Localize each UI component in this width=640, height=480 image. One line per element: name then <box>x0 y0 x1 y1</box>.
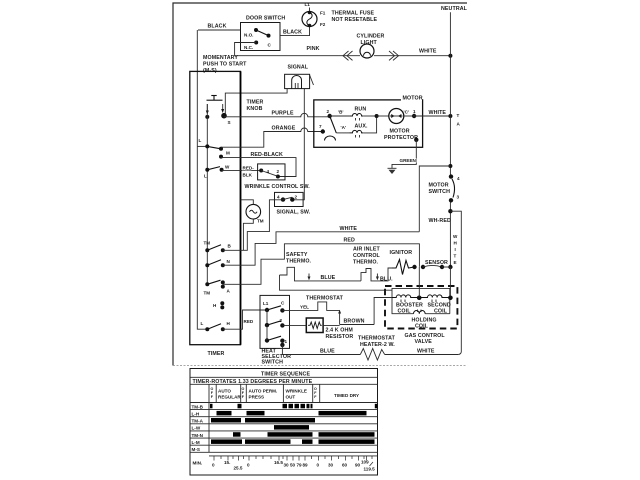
svg-text:TM: TM <box>204 291 211 296</box>
chart ruler <box>193 456 378 472</box>
svg-text:MIN.: MIN. <box>193 461 203 466</box>
door switch DS box <box>241 16 286 51</box>
momentary push to start label <box>203 55 247 74</box>
svg-text:WRINKLE: WRINKLE <box>286 389 307 394</box>
svg-text:COIL: COIL <box>398 309 412 315</box>
svg-text:AUTO PERM.: AUTO PERM. <box>249 389 278 394</box>
svg-text:4: 4 <box>457 176 460 181</box>
wire run to motor protector <box>377 115 389 117</box>
svg-text:BLUE: BLUE <box>321 275 336 281</box>
wire RED from L-H contact to heat selector <box>223 310 267 329</box>
svg-text:SIGNAL, SW.: SIGNAL, SW. <box>277 210 311 216</box>
svg-text:7: 7 <box>319 124 322 129</box>
svg-text:0: 0 <box>317 463 320 468</box>
timer contact L (timer motor) <box>199 138 220 149</box>
svg-text:79: 79 <box>297 463 303 468</box>
chart bars row L-M <box>211 439 375 444</box>
svg-text:TM: TM <box>257 219 264 224</box>
timer knob label <box>247 100 264 113</box>
timer box <box>190 71 241 357</box>
timer motor TM <box>241 200 264 251</box>
svg-text:1: 1 <box>285 339 288 344</box>
thermal fuse F1-F2 <box>302 2 378 27</box>
svg-text:OUT: OUT <box>286 395 296 400</box>
svg-text:0: 0 <box>247 463 250 468</box>
heat selector switch box <box>260 295 291 365</box>
motor protector <box>384 109 418 142</box>
vertical WHITE wire label <box>453 234 458 265</box>
svg-text:BLACK: BLACK <box>208 24 227 30</box>
wire black vertical from door switch into timer L bus <box>197 30 207 329</box>
svg-text:30: 30 <box>328 463 334 468</box>
wire from safety thermo around thermostat circuit to valve <box>280 275 393 290</box>
safety thermostat <box>280 252 312 281</box>
timer contact TM-B <box>204 241 232 253</box>
wire BROWN to gas valve <box>340 319 375 325</box>
svg-text:L1: L1 <box>305 2 311 7</box>
svg-text:TIMER: TIMER <box>247 100 264 106</box>
svg-text:TIMER-ROTATES 1.33 DEGREES PER: TIMER-ROTATES 1.33 DEGREES PER MINUTE <box>193 379 313 385</box>
svg-text:RESISTOR: RESISTOR <box>326 334 354 340</box>
svg-text:AIR INLET: AIR INLET <box>353 247 380 253</box>
chart header cells <box>209 384 359 452</box>
svg-text:T: T <box>457 113 460 118</box>
svg-text:NEUTRAL: NEUTRAL <box>441 6 468 12</box>
junction dot booster/second with wire from sensor <box>417 296 422 301</box>
svg-text:L: L <box>199 138 202 143</box>
svg-text:COIL: COIL <box>415 324 429 330</box>
timer sequence chart <box>190 369 378 476</box>
motor switch output node WH-RED <box>429 209 462 355</box>
svg-text:IGNITOR: IGNITOR <box>390 250 413 256</box>
svg-text:60: 60 <box>342 463 348 468</box>
wire terminal2 to run winding <box>330 115 350 117</box>
svg-text:N.O.: N.O. <box>244 33 253 38</box>
svg-text:KNOB: KNOB <box>247 106 263 112</box>
motor terminal 7 <box>319 124 325 134</box>
svg-text:REGULAR: REGULAR <box>218 395 241 400</box>
svg-text:WHITE: WHITE <box>419 49 437 55</box>
svg-text:SIGNAL: SIGNAL <box>288 65 309 71</box>
svg-text:NOT RESETABLE: NOT RESETABLE <box>332 17 378 23</box>
thermostat right branch with arrow <box>338 310 341 325</box>
svg-text:M-S: M-S <box>192 447 200 452</box>
svg-text:E: E <box>454 260 457 265</box>
chart bars row L-H <box>217 411 367 416</box>
wire from door switch C to thermal fuse <box>280 27 310 36</box>
frame bottom edge <box>173 365 467 367</box>
svg-text:RUN: RUN <box>355 107 367 113</box>
svg-text:GREEN: GREEN <box>400 158 417 163</box>
svg-text:M: M <box>226 151 230 156</box>
valve inner box / holding coil <box>392 288 450 329</box>
wire WHITE from heater to neutral channel <box>385 348 459 354</box>
svg-text:W: W <box>225 165 230 170</box>
svg-text:WH-RED: WH-RED <box>429 218 451 224</box>
svg-text:MOMENTARY: MOMENTARY <box>203 55 238 61</box>
wire RED from TM-A contact to ignitor <box>223 238 420 285</box>
svg-text:THERMOSTAT: THERMOSTAT <box>306 296 344 302</box>
svg-text:DOOR SWITCH: DOOR SWITCH <box>246 16 285 22</box>
svg-text:N.C.: N.C. <box>244 45 253 50</box>
svg-text:LIGHT: LIGHT <box>361 40 378 46</box>
svg-text:MOTOR: MOTOR <box>403 96 423 102</box>
svg-text:'A': 'A' <box>341 125 347 130</box>
wire PURPLE from S to motor terminal 2 <box>224 111 330 117</box>
svg-text:2: 2 <box>327 109 330 114</box>
svg-text:TM-A: TM-A <box>192 419 204 424</box>
wire WHITE from motor to neutral <box>414 110 452 118</box>
svg-text:2.4 K OHM: 2.4 K OHM <box>326 328 354 334</box>
timer contact TM-A <box>204 280 231 295</box>
connector chevrons left of cylinder light <box>343 51 353 60</box>
svg-text:1: 1 <box>413 109 416 114</box>
svg-text:HEATER-2 W.: HEATER-2 W. <box>360 342 395 348</box>
svg-text:AUX.: AUX. <box>355 124 368 130</box>
svg-text:109: 109 <box>361 460 369 465</box>
svg-text:PINK: PINK <box>307 46 320 52</box>
svg-text:PROTECTOR: PROTECTOR <box>384 135 418 141</box>
aux winding <box>349 114 378 138</box>
svg-text:F1: F1 <box>320 11 326 16</box>
connector chevrons right of cylinder light <box>389 51 399 60</box>
sensor switch <box>412 260 452 269</box>
motor terminal 2 <box>327 109 344 118</box>
svg-text:MOTOR: MOTOR <box>429 183 449 189</box>
svg-text:RED: RED <box>244 319 254 324</box>
svg-text:BROWN: BROWN <box>344 319 365 325</box>
chart bars row TM-B <box>210 404 378 409</box>
motor box <box>314 94 423 147</box>
signal buzzer box <box>285 65 314 89</box>
svg-text:0: 0 <box>212 463 215 468</box>
chart bars row TM-A <box>211 418 315 423</box>
svg-text:15.: 15. <box>224 460 230 465</box>
motor start switch blade <box>325 116 347 141</box>
svg-text:L: L <box>204 174 207 179</box>
svg-text:PUSH TO START: PUSH TO START <box>203 62 247 68</box>
wire BLUE bottom from heat selector <box>282 345 360 355</box>
chart bars row L-W <box>274 425 309 430</box>
svg-text:2: 2 <box>277 169 280 174</box>
svg-text:SWITCH: SWITCH <box>429 189 451 195</box>
svg-text:90: 90 <box>355 463 361 468</box>
timer contact M terminals <box>219 147 230 159</box>
wire WHITE from cylinder light to neutral <box>374 49 452 58</box>
gas control valve dashed enclosure <box>385 286 457 329</box>
svg-text:16.5: 16.5 <box>274 460 283 465</box>
svg-text:'B': 'B' <box>338 110 344 115</box>
svg-text:F2: F2 <box>320 22 326 27</box>
2.4 K ohm resistor <box>282 318 353 340</box>
svg-text:RED: RED <box>344 238 356 244</box>
svg-text:PURPLE: PURPLE <box>272 111 294 117</box>
svg-text:CYLINDER: CYLINDER <box>357 34 385 40</box>
timer contact H terminals <box>213 301 224 309</box>
wire signal buzzer to signal switch (vertical) <box>292 89 304 200</box>
svg-text:AUTO: AUTO <box>218 389 231 394</box>
chart bars row TM-N <box>233 432 375 437</box>
wire PINK from door switch N.C. to cylinder light <box>235 43 360 56</box>
svg-text:MOTOR: MOTOR <box>390 129 410 135</box>
thermostat heater 2W label <box>358 336 396 349</box>
chart row labels <box>192 404 204 452</box>
svg-text:THERMO.: THERMO. <box>286 259 312 265</box>
svg-text:ORANGE: ORANGE <box>272 126 296 132</box>
svg-text:89: 89 <box>303 463 309 468</box>
svg-text:SWITCH: SWITCH <box>262 360 284 366</box>
node dot to motor-switch branch <box>419 164 452 232</box>
timer contact L-H <box>201 321 231 331</box>
svg-text:THERMO.: THERMO. <box>353 260 379 266</box>
svg-text:WHITE: WHITE <box>429 110 447 116</box>
wire BLUE safety to air inlet thermo <box>310 275 361 281</box>
svg-text:3: 3 <box>457 195 460 200</box>
svg-text:VALVE: VALVE <box>415 339 433 345</box>
svg-text:4: 4 <box>277 195 280 200</box>
thermostat heater resistor zigzag <box>360 349 384 361</box>
svg-text:THERMAL FUSE: THERMAL FUSE <box>332 11 375 17</box>
chart row lines <box>190 403 378 453</box>
svg-text:L: L <box>201 321 204 326</box>
neutral vertical wire <box>449 12 451 267</box>
svg-text:WHITE: WHITE <box>340 226 358 232</box>
wire WHITE from timer N contact to motor switch <box>223 226 419 265</box>
cylinder light lamp <box>357 34 385 59</box>
timer bus wire (left contacts common) <box>206 104 208 284</box>
svg-text:RED-: RED- <box>243 166 255 171</box>
booster coil <box>392 295 423 315</box>
wire ORANGE from M to motor terminal 7 <box>221 126 323 148</box>
motor protector terminal to green ground <box>392 138 418 168</box>
timer contact W <box>204 165 230 179</box>
motor switch <box>429 174 461 202</box>
signal switch box <box>275 192 311 215</box>
svg-text:2: 2 <box>295 195 298 200</box>
svg-text:TIMED DRY: TIMED DRY <box>334 393 359 398</box>
svg-text:2: 2 <box>280 318 283 323</box>
svg-text:BLU.: BLU. <box>380 277 393 283</box>
timer contact N <box>205 259 230 267</box>
svg-text:W: W <box>453 234 458 239</box>
svg-text:T: T <box>454 254 457 259</box>
svg-text:TIMER: TIMER <box>208 351 225 357</box>
svg-text:BLUE: BLUE <box>320 348 335 354</box>
ignitor <box>390 250 415 275</box>
svg-text:TM-B: TM-B <box>192 404 204 409</box>
svg-text:TM: TM <box>204 241 211 246</box>
svg-text:YEL: YEL <box>300 305 309 310</box>
svg-text:TM-N: TM-N <box>192 433 204 438</box>
svg-text:TIMER SEQUENCE: TIMER SEQUENCE <box>261 372 310 378</box>
wire from TM-B contact to signal switch <box>223 200 283 251</box>
svg-text:THERMOSTAT: THERMOSTAT <box>358 336 396 342</box>
svg-text:I: I <box>455 247 456 252</box>
wrinkle control switch box <box>245 164 311 190</box>
svg-text:L1: L1 <box>263 301 269 306</box>
svg-text:COIL: COIL <box>434 309 448 315</box>
svg-text:25.5: 25.5 <box>234 466 243 471</box>
svg-text:CONTROL: CONTROL <box>353 253 381 259</box>
wire from timer S contact to signal buzzer <box>225 89 287 114</box>
svg-text:50: 50 <box>290 463 296 468</box>
stub L bus to timer contact L <box>197 145 207 147</box>
svg-text:PRESS: PRESS <box>249 395 265 400</box>
svg-text:30: 30 <box>284 463 290 468</box>
second coil <box>419 267 453 315</box>
schematic border frame <box>173 3 467 366</box>
wire RED-BLK from W to wrinkle control switch <box>222 166 262 178</box>
svg-text:WHITE: WHITE <box>417 348 435 354</box>
svg-text:L-W: L-W <box>192 426 201 431</box>
svg-text:WRINKLE CONTROL SW.: WRINKLE CONTROL SW. <box>245 184 311 190</box>
svg-text:119.5: 119.5 <box>364 467 376 472</box>
wire RED-BLACK from M to wrinkle control switch <box>221 152 296 177</box>
svg-text:RED-BLACK: RED-BLACK <box>251 152 283 158</box>
svg-text:BLK: BLK <box>243 173 253 178</box>
gas control valve label <box>405 333 446 345</box>
wire into valve from brown circuit <box>374 298 392 325</box>
momentary push-to-start switch M-S <box>205 96 230 126</box>
svg-text:L-H: L-H <box>192 411 200 416</box>
wire BLACK to door switch <box>198 24 241 31</box>
svg-text:BLACK: BLACK <box>283 30 302 36</box>
svg-text:S: S <box>228 120 231 125</box>
svg-text:4: 4 <box>267 169 270 174</box>
svg-text:'C': 'C' <box>404 110 410 115</box>
thermostat <box>282 296 343 311</box>
air inlet control thermostat <box>353 247 393 283</box>
run winding <box>336 107 376 133</box>
svg-text:SAFETY: SAFETY <box>286 252 308 258</box>
ground symbol <box>388 168 397 174</box>
svg-text:L-M: L-M <box>192 440 200 445</box>
